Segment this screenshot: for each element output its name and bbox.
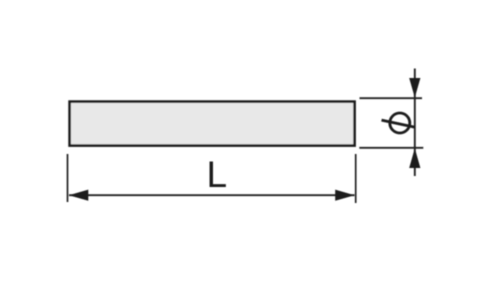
- svg-text:L: L: [207, 154, 228, 195]
